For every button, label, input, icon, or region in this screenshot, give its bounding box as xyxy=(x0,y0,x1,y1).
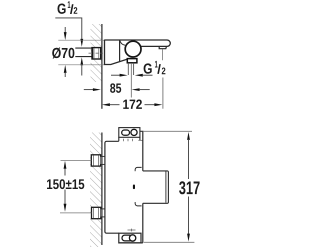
dimension 85 xyxy=(84,89,93,91)
mixer body (side view) xyxy=(104,40,170,46)
wall hatching (lower view) xyxy=(90,133,102,247)
arrow up to supply pipe (below) xyxy=(80,57,83,65)
tiny marks under top cap xyxy=(123,139,125,141)
top end cap xyxy=(119,128,140,138)
handle block xyxy=(143,171,169,203)
label G1/2 (top inlet) xyxy=(57,4,65,14)
economy button mark xyxy=(133,185,135,190)
arrow down to supply pipe xyxy=(80,39,83,47)
spout axis extension line (upper segment) xyxy=(162,49,164,60)
upper inlet nut xyxy=(91,155,100,166)
hex union nut behind wall xyxy=(92,48,101,59)
bottom cap circle detail xyxy=(129,235,135,241)
lower inlet stub to body xyxy=(101,209,106,217)
leader line of top G1/2 xyxy=(55,18,82,40)
wall hatching (top view) xyxy=(91,24,102,82)
extension lines for 317 xyxy=(143,130,192,132)
outlet centerline extension xyxy=(130,63,132,98)
neck arc to knob xyxy=(120,41,125,46)
body top-right corner segment xyxy=(140,130,144,132)
upper inlet stub to body xyxy=(101,156,106,164)
supply pipe behind wall xyxy=(75,47,92,49)
escutcheon (wall rosette) xyxy=(105,40,128,65)
dimension Ø70 xyxy=(64,27,66,33)
label G1/2 (outlet) xyxy=(144,63,152,73)
arrows flanking outlet pipe xyxy=(111,74,120,76)
outlet pipe xyxy=(127,63,129,75)
body right edge (below handle) xyxy=(142,203,144,243)
top cap circle detail xyxy=(131,129,137,135)
dimension 317 xyxy=(187,132,190,140)
body right edge (above handle) xyxy=(142,131,144,171)
lower inlet nut xyxy=(92,207,101,218)
dimension 172 xyxy=(102,103,110,106)
centerline through nut xyxy=(89,52,104,54)
bottom cap stadium detail xyxy=(122,235,132,241)
top cap stadium detail xyxy=(122,130,130,135)
wall face line (top view) xyxy=(101,24,103,109)
spout nub xyxy=(159,46,166,48)
left edge + shoulders xyxy=(105,141,119,233)
bottom end cap xyxy=(119,233,141,243)
escutcheon front face xyxy=(119,40,121,62)
upper inlet extension line xyxy=(61,159,92,161)
spout axis extension line (lower segment) xyxy=(162,78,164,109)
outlet cap under knob xyxy=(127,59,137,63)
lower inlet extension line xyxy=(60,212,92,214)
top curl (tube shoulder) xyxy=(135,167,142,171)
bottom curl (tube shoulder) xyxy=(135,202,142,206)
dimension 150±15 xyxy=(64,161,67,169)
wall face line (lower view) xyxy=(101,133,103,246)
tiny marks above bottom cap xyxy=(128,229,136,231)
thermostat knob (circle) xyxy=(125,41,141,57)
